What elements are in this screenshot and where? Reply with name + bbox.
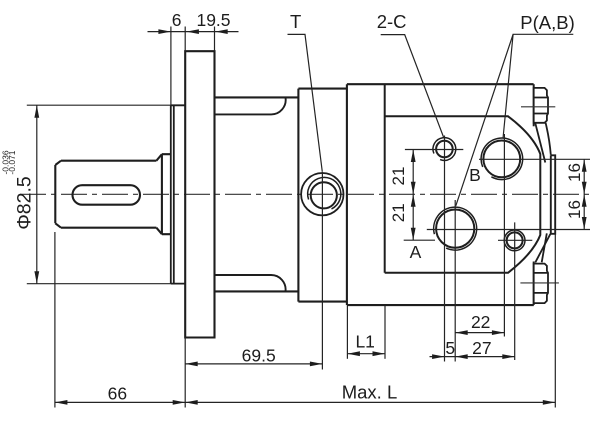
leader 2-C with underline <box>381 35 444 137</box>
ext max L right <box>554 234 556 408</box>
svg-text:16: 16 <box>565 200 584 219</box>
dimension 16 top and bottom <box>582 159 587 229</box>
mounting flange <box>185 51 214 337</box>
svg-text:66: 66 <box>108 384 127 404</box>
port T inner circle <box>311 182 337 208</box>
port B inner circle <box>483 141 520 178</box>
svg-text:27: 27 <box>472 338 491 358</box>
port C inner circle <box>436 141 453 158</box>
dimension L1 <box>347 351 385 356</box>
leader T with underline <box>288 34 323 171</box>
port B horizontal centerline / 16 ext <box>479 158 590 160</box>
housing joint line <box>384 84 386 273</box>
ext flange left below <box>184 338 186 408</box>
svg-text:P(A,B): P(A,B) <box>520 12 574 33</box>
ext shaft left below <box>54 232 56 408</box>
mid housing step line bottom with fillet <box>215 275 286 291</box>
extension line flange left top <box>184 27 186 52</box>
svg-text:19.5: 19.5 <box>196 10 230 30</box>
svg-text:A: A <box>410 242 422 262</box>
shaft <box>55 154 162 234</box>
main housing outline <box>347 84 534 305</box>
svg-text:Max. L: Max. L <box>342 382 398 403</box>
dimension Max. L <box>185 400 555 405</box>
svg-text:6: 6 <box>172 10 182 30</box>
svg-text:22: 22 <box>471 312 490 332</box>
ext L1 right <box>384 306 386 359</box>
port A horizontal centerline / 16 ext <box>427 229 590 231</box>
shaft collar <box>162 154 171 234</box>
ext L1 left <box>346 306 348 359</box>
dimension phi 82.5 <box>34 105 39 284</box>
bottom plug neck left line <box>535 234 550 263</box>
port C vertical centerline <box>444 136 446 362</box>
svg-text:Φ82.5: Φ82.5 <box>13 176 35 230</box>
end cover dome silhouette <box>385 116 541 272</box>
port C horizontal centerline / 21 ext <box>405 149 463 151</box>
top plug neck left line <box>535 123 545 163</box>
bottom plug neck right line <box>542 233 547 262</box>
svg-text:2-C: 2-C <box>377 11 407 32</box>
keyway slot on shaft <box>73 185 141 205</box>
phi ext top <box>27 104 171 106</box>
hex plug bottom <box>534 264 548 304</box>
gauge port outer circle <box>504 230 525 251</box>
svg-text:L1: L1 <box>355 332 374 352</box>
svg-text:5: 5 <box>445 338 455 358</box>
port B vertical centerline <box>503 134 505 337</box>
dimension 22 <box>455 330 504 335</box>
svg-text:21: 21 <box>389 167 408 186</box>
21 bottom extension line <box>404 239 435 241</box>
gauge port vertical centerline <box>514 222 516 360</box>
svg-text:69.5: 69.5 <box>242 346 276 366</box>
bottom hex plug axis <box>520 282 559 284</box>
port T outer circle <box>301 173 343 215</box>
bottom hex plug boss edge <box>533 262 535 306</box>
svg-text:T: T <box>290 11 301 32</box>
extension line flange right top <box>214 27 216 52</box>
port T thread arc <box>308 177 341 209</box>
leader P to A <box>456 34 513 206</box>
top hex plug axis <box>521 106 555 108</box>
port A outer thread arc <box>434 207 477 250</box>
svg-text:16: 16 <box>565 163 584 182</box>
phi ext bottom <box>27 283 171 285</box>
dimension 21 top <box>411 150 416 241</box>
gauge port horizontal centerline <box>498 239 532 241</box>
flange pilot boss <box>171 105 185 283</box>
port A vertical centerline <box>454 200 456 362</box>
centerline main axis <box>20 193 592 195</box>
svg-text:21: 21 <box>389 203 408 222</box>
svg-text:-0.071: -0.071 <box>7 150 17 174</box>
leader P to B with underline <box>503 34 573 138</box>
port C (2-C) thread arc <box>433 138 456 161</box>
top plug neck right line <box>546 123 551 155</box>
top hex plug boss edge <box>533 84 535 126</box>
mid housing step line top with fillet <box>215 98 286 115</box>
wear plate / spacer section <box>298 84 347 305</box>
port A inner circle <box>436 210 474 248</box>
port B outer thread arc <box>481 138 523 180</box>
hex plug top <box>534 88 548 123</box>
svg-text:B: B <box>469 165 481 185</box>
extension line pilot face top <box>170 27 172 106</box>
rear port plate <box>551 155 555 234</box>
dimension 69.5 <box>185 362 322 367</box>
gauge port inner circle <box>507 232 523 248</box>
port T vertical centerline <box>321 172 323 370</box>
mid housing body <box>215 97 299 291</box>
dimension 5 and 27 <box>430 354 515 359</box>
dimension 6 and 19.5 <box>148 29 239 34</box>
dimension 66 <box>55 400 185 405</box>
